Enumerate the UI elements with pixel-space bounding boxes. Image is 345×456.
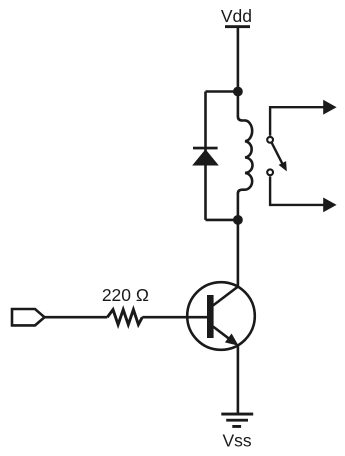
node top junction <box>233 87 243 97</box>
input connector tag <box>12 309 45 325</box>
ground bar 1 <box>221 413 253 416</box>
transistor Q1 base bar <box>207 295 214 338</box>
wire connector to resistor <box>45 316 108 319</box>
resistor R1 220 ohm zigzag <box>107 310 142 325</box>
Vdd power rail bar <box>225 25 250 28</box>
ground bar 2 <box>226 419 248 422</box>
node bottom junction <box>233 215 243 225</box>
wire bottom node to diode branch <box>206 219 238 222</box>
transistor Q1 emitter arrowhead <box>225 334 239 346</box>
ground bar 3 <box>232 425 241 428</box>
svg-text:Vdd: Vdd <box>221 6 252 26</box>
wire bottom node to transistor collector <box>237 220 240 288</box>
wire coil to bottom node <box>237 193 240 220</box>
diode D1 anode triangle <box>192 149 219 165</box>
wire top node to coil <box>237 92 240 118</box>
wire diode branch vertical <box>204 92 207 220</box>
relay contact throw circle <box>267 169 273 175</box>
wire Vdd to top node <box>237 28 240 92</box>
transistor Q1 body circle <box>187 282 255 350</box>
diode D1 cathode bar <box>193 147 218 150</box>
wire top node to diode branch <box>206 90 238 93</box>
wire emitter to ground <box>237 345 240 414</box>
arrowhead upper output <box>323 100 336 115</box>
svg-text:Vss: Vss <box>223 431 252 451</box>
svg-text:220 Ω: 220 Ω <box>102 285 149 305</box>
wire resistor to transistor base <box>142 316 207 319</box>
switch blade arrowhead <box>279 161 287 171</box>
transistor Q1 collector stroke <box>213 287 238 306</box>
arrowhead lower output <box>323 198 336 213</box>
wire bottom contact to lower output <box>270 176 324 205</box>
switch blade <box>272 143 283 165</box>
inductor L1 relay coil <box>238 117 253 194</box>
wire top contact to upper output <box>270 107 324 136</box>
relay contact common pole circle <box>267 137 273 143</box>
transistor Q1 emitter stroke <box>213 327 231 340</box>
